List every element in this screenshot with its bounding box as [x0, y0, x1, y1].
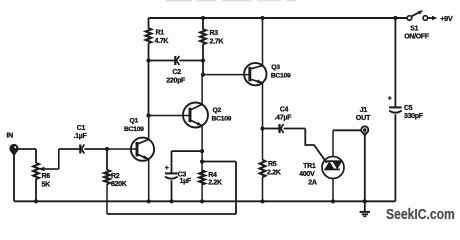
- svg-text:R4: R4: [208, 172, 217, 179]
- svg-text:OUT: OUT: [356, 113, 371, 122]
- svg-text:SeekIC.com: SeekIC.com: [386, 206, 455, 223]
- svg-text:ON/OFF: ON/OFF: [404, 33, 430, 40]
- svg-text:2A: 2A: [308, 179, 317, 186]
- svg-text:330pF: 330pF: [404, 113, 424, 120]
- svg-text:R6: R6: [42, 173, 51, 180]
- svg-text:IN: IN: [7, 133, 14, 140]
- svg-text:R2: R2: [111, 173, 120, 180]
- svg-text:R3: R3: [210, 30, 219, 37]
- svg-text:400V: 400V: [299, 171, 315, 178]
- svg-text:820K: 820K: [111, 181, 127, 188]
- svg-text:+: +: [388, 95, 392, 102]
- svg-text:.47µF: .47µF: [275, 115, 293, 122]
- svg-text:BC109: BC109: [212, 115, 232, 122]
- svg-text:2.2K: 2.2K: [208, 179, 222, 186]
- svg-text:C4: C4: [280, 107, 289, 114]
- svg-text:5K: 5K: [42, 181, 51, 188]
- svg-text:220pF: 220pF: [166, 78, 186, 85]
- svg-text:R1: R1: [156, 30, 165, 37]
- svg-text:Q2: Q2: [213, 107, 222, 114]
- svg-text:2.2K: 2.2K: [267, 170, 281, 177]
- svg-text:2.7K: 2.7K: [210, 39, 224, 46]
- svg-text:C1: C1: [77, 125, 86, 132]
- svg-text:Q3: Q3: [271, 64, 280, 71]
- svg-text:4.7K: 4.7K: [155, 38, 169, 45]
- svg-text:+: +: [165, 165, 169, 172]
- svg-text:+9V: +9V: [440, 14, 453, 23]
- svg-text:.1µF: .1µF: [74, 133, 88, 140]
- svg-text:BC109: BC109: [271, 73, 291, 80]
- svg-text:C2: C2: [173, 69, 182, 76]
- svg-text:1µF: 1µF: [180, 178, 192, 185]
- svg-text:C5: C5: [404, 105, 413, 112]
- svg-text:Q1: Q1: [130, 118, 139, 125]
- svg-text:TR1: TR1: [303, 163, 316, 170]
- svg-text:S1: S1: [410, 26, 418, 33]
- svg-text:BC109: BC109: [124, 126, 144, 133]
- svg-text:R5: R5: [268, 161, 277, 168]
